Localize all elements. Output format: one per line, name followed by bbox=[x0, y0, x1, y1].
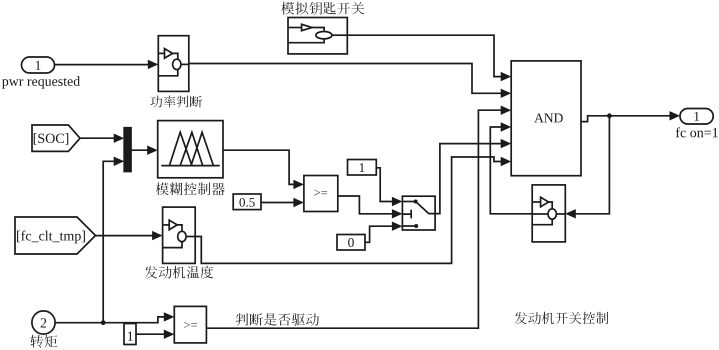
switch block bbox=[402, 196, 435, 230]
wire constant 0 to switch input 3 bbox=[365, 222, 402, 243]
from tag [fc_clt_tmp] bbox=[15, 217, 96, 254]
junction on torque wire bbox=[101, 320, 106, 325]
from tag [SOC] bbox=[32, 125, 80, 151]
junction on AND output bbox=[607, 113, 612, 118]
wire 功率判断 output to AND input 2 bbox=[189, 64, 511, 99]
wire port 2 to lower >= input 1 (with jog) bbox=[55, 312, 174, 323]
logical operator AND bbox=[511, 61, 581, 176]
wire junction down to 发动机开关控制 block input bbox=[565, 116, 609, 219]
label 发动机开关控制 bbox=[515, 312, 608, 325]
constant 1 (lower) bbox=[124, 324, 136, 345]
wire switch output to AND input 5 bbox=[435, 139, 511, 214]
wire >= output to switch input 2 bbox=[338, 196, 403, 219]
wire constant 1 to lower >= input 2 bbox=[136, 330, 174, 339]
block 发动机温度 (engine temperature subsystem) bbox=[163, 207, 196, 263]
wire constant 0.5 to >= input 2 bbox=[261, 198, 304, 207]
output port 1 "fc on=1" bbox=[676, 109, 718, 138]
scan edge artifact at bottom bbox=[0, 348, 719, 350]
wire port 1 to 功率判断 block bbox=[55, 60, 159, 69]
wire mux output to 模糊控制器 bbox=[131, 146, 158, 155]
wire [SOC] to mux input 1 bbox=[80, 134, 124, 143]
wire 发动机温度 output to AND input 6 bbox=[195, 157, 511, 264]
block 功率判断 (power判断 subsystem) bbox=[158, 36, 189, 92]
constant 0 bbox=[337, 235, 365, 251]
constant 1 (upper) bbox=[348, 160, 377, 176]
label 判断是否驱动 bbox=[236, 313, 319, 326]
relational operator >= (upper) bbox=[304, 176, 338, 212]
block 模糊控制器 (fuzzy logic controller) bbox=[158, 121, 223, 178]
wire lower >= output to AND input 3 bbox=[206, 106, 511, 329]
mux (black bar) bbox=[124, 128, 131, 172]
wire torque branch up to mux input 2 bbox=[103, 157, 124, 323]
block 发动机开关控制 (engine switch control subsystem) bbox=[532, 185, 565, 242]
wire AND output to output port bbox=[581, 111, 680, 122]
constant 0.5 bbox=[233, 194, 261, 210]
wire [fc_clt_tmp] to 发动机温度 bbox=[96, 231, 163, 240]
label 发动机温度 bbox=[145, 266, 214, 279]
input port 1 "pwr requested" bbox=[2, 57, 80, 89]
wire constant 1 to switch input 1 bbox=[376, 168, 402, 206]
label 模拟钥匙开关 bbox=[281, 2, 364, 15]
label 功率判断 bbox=[150, 96, 202, 108]
input port 2 "转矩" bbox=[32, 311, 55, 334]
label 转矩 bbox=[30, 335, 57, 348]
label 模糊控制器 bbox=[156, 182, 225, 195]
wire 模糊控制器 output to >= input 1 bbox=[223, 150, 304, 189]
relational operator >= (lower) bbox=[174, 306, 206, 343]
block 模拟钥匙开关 (key switch subsystem) bbox=[288, 18, 347, 54]
wire 发动机开关控制 output to AND input 4 bbox=[490, 122, 532, 214]
wire 模拟钥匙开关 output to AND input 1 bbox=[347, 35, 511, 81]
